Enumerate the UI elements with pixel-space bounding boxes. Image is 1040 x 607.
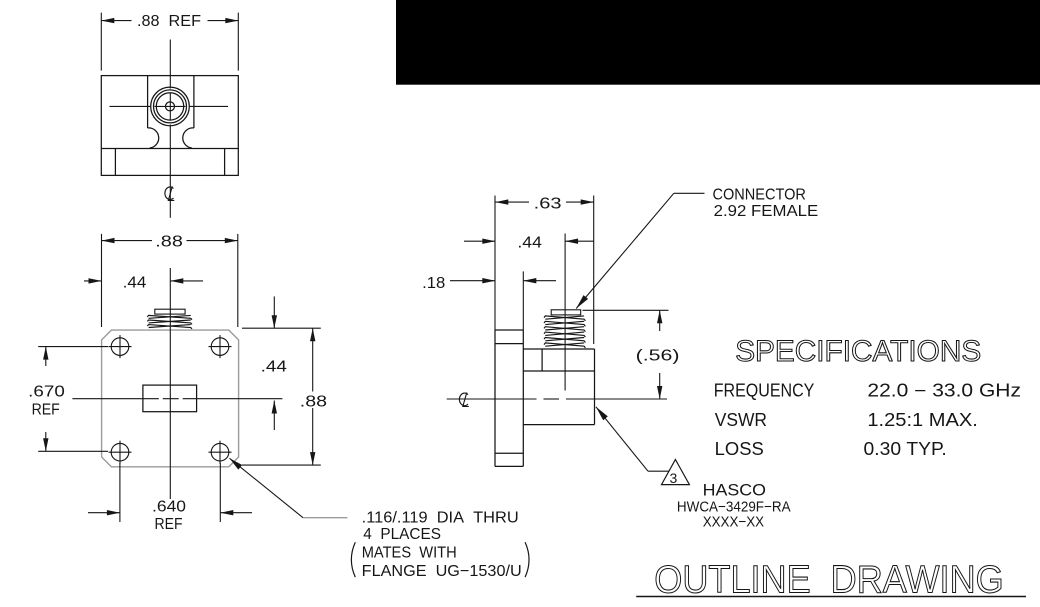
front view: flange square outline (gray, chamfered corners) <box>102 330 239 467</box>
front view: horizontal centerline <box>72 398 158 400</box>
side view: flange bottom cap line <box>495 452 523 454</box>
top view: connector circle inner <box>156 93 183 120</box>
svg-text:FLANGE UG−1530/U: FLANGE UG−1530/U <box>362 563 522 580</box>
front view: hole bottom-right <box>209 441 232 464</box>
side view: dim (.56) arrows <box>659 310 661 331</box>
svg-text:LOSS: LOSS <box>715 439 764 459</box>
top view: lower band left inner vertical <box>114 149 116 176</box>
triangle note 3 leader arrowhead <box>596 407 608 420</box>
svg-text:REF: REF <box>32 402 60 419</box>
svg-text:(.56): (.56) <box>636 348 680 365</box>
side view: connector vertical centerline <box>564 234 566 391</box>
top view: horizontal centerline through circle <box>110 105 151 107</box>
front view: hole bottom-left <box>109 441 132 464</box>
front view: dim .44 top-left arrows (outside) <box>84 280 102 282</box>
svg-text:.88 REF: .88 REF <box>137 13 201 30</box>
front view: connector thread (top) <box>155 309 185 314</box>
triangle note 3 leader horizontal <box>648 470 669 472</box>
side view: body internal vertical line <box>541 349 543 371</box>
side view: connector thread <box>551 310 581 315</box>
front view: dim .670 arrows <box>45 347 47 366</box>
svg-text:SPECIFICATIONS: SPECIFICATIONS <box>735 335 981 368</box>
svg-text:CONNECTOR: CONNECTOR <box>713 187 806 204</box>
svg-text:.640: .640 <box>152 499 186 516</box>
note big right parenthesis <box>525 542 529 577</box>
front view: hole top-right <box>209 335 232 358</box>
top view: center pin hole circle <box>166 102 175 111</box>
top view: channel left wall <box>147 76 149 128</box>
top view: centerline symbol <box>165 186 174 200</box>
side view: centerline symbol <box>459 393 468 407</box>
top view: channel left fillet arc <box>148 128 159 148</box>
connector leader diagonal <box>576 193 674 308</box>
top view: vertical centerline <box>169 40 171 89</box>
front view: waveguide aperture rectangle <box>143 385 197 412</box>
svg-text:MATES WITH: MATES WITH <box>362 544 457 561</box>
side view: body top edge <box>523 348 594 350</box>
svg-text:.670: .670 <box>28 383 65 400</box>
top view: channel right wall <box>193 76 195 128</box>
top view: body outline rectangle <box>101 76 238 176</box>
svg-text:.116/.119 DIA THRU: .116/.119 DIA THRU <box>362 510 519 527</box>
note big left parenthesis <box>351 542 355 577</box>
front view: dim .670 REF extension lines <box>38 346 108 348</box>
leader to mounting-hole note: horizontal gray segment <box>303 517 347 519</box>
connector leader arrowhead <box>576 295 588 308</box>
front view: right side extension line bottom <box>242 464 321 466</box>
svg-text:1.25:1 MAX.: 1.25:1 MAX. <box>867 410 978 430</box>
triangle note 3 symbol <box>662 460 690 485</box>
top view: channel right fillet arc <box>183 128 194 148</box>
side view: dim .63 extension right <box>593 196 595 345</box>
leader to mounting-hole note: arrowhead at corner <box>230 458 243 469</box>
top view: lower band right inner vertical <box>224 149 226 176</box>
svg-text:3: 3 <box>670 470 678 486</box>
side view: body bottom edge <box>523 424 594 426</box>
side view: dim .18 arrows <box>450 280 495 282</box>
svg-text:0.30 TYP.: 0.30 TYP. <box>864 439 947 459</box>
side view: horizontal centerline <box>447 398 537 400</box>
front view: dim .44 right arrows <box>273 296 275 328</box>
front view: dim .88 extension line left <box>101 234 103 327</box>
side view: body internal horizontal line <box>523 370 594 372</box>
front view: dim .640 REF extension lines <box>119 463 121 522</box>
svg-text:HASCO: HASCO <box>703 481 766 500</box>
svg-text:2.92 FEMALE: 2.92 FEMALE <box>714 203 819 220</box>
side view: flange left edge + extension <box>494 196 496 331</box>
front view: vertical centerline <box>169 268 171 499</box>
side view: body right edge <box>594 349 596 425</box>
side view: flange top cap line <box>495 343 523 345</box>
title underline <box>636 596 1026 598</box>
top view: connector circle outer <box>151 87 190 126</box>
svg-text:REF: REF <box>155 516 183 533</box>
connector leader horizontal <box>674 192 705 194</box>
svg-text:.44: .44 <box>517 234 542 251</box>
svg-text:.88: .88 <box>155 234 183 251</box>
side view: flange top edge <box>495 329 523 331</box>
front view: dim .640 arrows (outside) <box>88 512 120 514</box>
front view: right side extension line top <box>242 327 321 329</box>
top view: lower band horizontal line <box>101 148 238 150</box>
side view: flange right edge <box>522 330 524 466</box>
svg-text:.44: .44 <box>123 275 147 292</box>
svg-text:.18: .18 <box>422 275 445 292</box>
leader to mounting-hole note: diagonal <box>230 458 304 517</box>
svg-text:.88: .88 <box>300 393 327 410</box>
top view: dimension .88 REF extension line left <box>100 13 102 71</box>
top view: dimension line .88 REF with arrows <box>101 20 131 22</box>
svg-text:XXXX−XX: XXXX−XX <box>703 513 764 530</box>
top view: dimension .88 REF extension line right <box>237 13 239 71</box>
svg-text:OUTLINE DRAWING: OUTLINE DRAWING <box>654 559 1003 602</box>
side view: dim (.56) extension top <box>583 309 669 311</box>
svg-text:VSWR: VSWR <box>715 410 767 430</box>
side view: dim .44 arrows (outside) <box>464 240 495 242</box>
svg-text:.44: .44 <box>261 359 287 376</box>
side view: flange bottom edge <box>495 465 523 467</box>
svg-text:.63: .63 <box>534 195 562 212</box>
svg-text:22.0 − 33.0 GHz: 22.0 − 33.0 GHz <box>867 381 1021 401</box>
side view: dim .63 line with arrows <box>495 201 529 203</box>
front view: dim .88 extension line right <box>237 234 239 327</box>
front view: hole top-left <box>109 335 132 358</box>
svg-text:4 PLACES: 4 PLACES <box>363 526 441 543</box>
svg-text:FREQUENCY: FREQUENCY <box>714 381 815 401</box>
redaction black bar (title block cover) <box>396 0 1040 85</box>
top view: connector circle middle <box>154 90 187 123</box>
front view: dimension line .88 top with arrows <box>102 240 153 242</box>
triangle note 3 leader diagonal <box>596 407 648 471</box>
front view: dim .88 right line/arrows <box>312 328 314 391</box>
side view: dim .18 extension line <box>522 271 524 330</box>
